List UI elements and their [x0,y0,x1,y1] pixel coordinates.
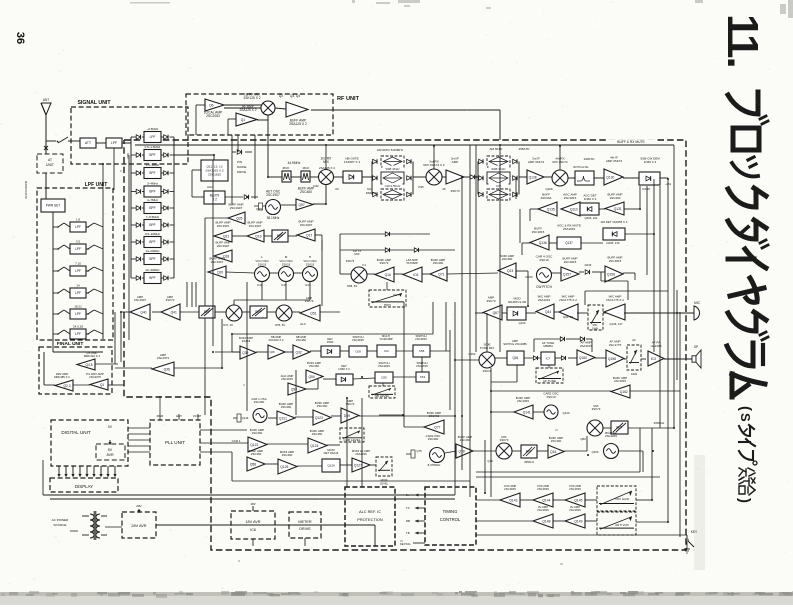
svg-text:GAIN: GAIN [631,372,637,376]
svg-text:LEVEL: LEVEL [380,482,389,486]
svg-text:BPF: BPF [204,310,210,314]
svg-text:2SA125 X 2: 2SA125 X 2 [289,122,307,126]
svg-text:Q1: Q1 [241,118,246,122]
svg-text:Q124: Q124 [310,444,318,448]
svg-text:Q1: Q1 [100,383,105,387]
svg-text:2SC460: 2SC460 [610,196,621,200]
svg-text:2SC460: 2SC460 [551,439,562,443]
svg-text:66: 66 [442,187,446,191]
svg-text:Q15: Q15 [550,450,556,454]
svg-text:14~20MHz: 14~20MHz [145,249,160,253]
svg-text:2SC1907: 2SC1907 [134,298,146,302]
svg-text:3SK73: 3SK73 [592,407,601,411]
svg-text:2SC460: 2SC460 [251,452,262,456]
svg-text:MCF: MCF [303,166,310,170]
svg-text:MIX: MIX [323,160,330,164]
svg-text:DRIVE: DRIVE [299,527,311,531]
svg-text:Q144: Q144 [542,498,550,502]
svg-text:BUFF & RX MUTE: BUFF & RX MUTE [617,140,645,144]
svg-text:NB LEVEL: NB LEVEL [375,394,390,398]
svg-text:SWITCH 2SC2086: SWITCH 2SC2086 [503,342,527,346]
svg-text:1N60: 1N60 [327,340,334,344]
svg-text:TC4011BP: TC4011BP [379,337,393,341]
svg-text:2SC460: 2SC460 [252,431,263,435]
svg-text:Q135: Q135 [547,207,555,211]
svg-text:KEY: KEY [691,530,698,534]
svg-text:Q41: Q41 [171,310,177,314]
svg-text:Q119: Q119 [242,416,249,420]
svg-text:Q145: Q145 [574,498,582,502]
svg-text:0.5~1.5MHz: 0.5~1.5MHz [145,145,161,149]
svg-text:BPF: BPF [616,426,622,430]
svg-text:2SC1907: 2SC1907 [266,193,280,197]
svg-text:MRF485 X 2: MRF485 X 2 [54,375,70,379]
svg-text:2SC1775 X 2: 2SC1775 X 2 [606,298,624,302]
svg-text:2SC1907: 2SC1907 [230,206,243,210]
svg-text:C08: C08 [355,350,361,354]
svg-text:ALC REF. IC: ALC REF. IC [359,509,381,514]
svg-text:Q149: Q149 [574,519,582,523]
svg-text:Q150: Q150 [592,450,599,454]
svg-text:TA7060P: TA7060P [406,261,418,265]
svg-text:8.5~16MHz: 8.5~16MHz [145,232,160,236]
svg-text:AMP 3SK73: AMP 3SK73 [606,159,623,163]
svg-text:2SC460: 2SC460 [282,453,293,457]
svg-text:BPF: BPF [526,450,532,454]
svg-text:2SC460: 2SC460 [281,405,292,409]
svg-text:2SC1815: 2SC1815 [378,364,390,368]
svg-text:1N60 X 2: 1N60 X 2 [338,367,350,371]
svg-text:Q136: Q136 [539,241,547,245]
svg-text:1.5~3MHz: 1.5~3MHz [146,163,160,167]
svg-text:TIMING: TIMING [443,509,458,514]
svg-text:SOURCE: SOURCE [53,523,66,527]
svg-text:Q81: Q81 [512,356,518,360]
svg-text:Q143: Q143 [509,498,517,502]
svg-text:BPF: BPF [255,310,261,314]
svg-text:LPF: LPF [75,312,81,316]
svg-text:DIGITAL UNIT: DIGITAL UNIT [61,430,91,435]
svg-text:3SK73: 3SK73 [450,189,460,193]
svg-text:MKR: MKR [157,414,165,418]
svg-text:2SC1815: 2SC1815 [614,379,626,383]
svg-text:LPF: LPF [111,141,117,145]
svg-text:Q131: Q131 [614,207,622,211]
svg-text:CW 0.5KHz: CW 0.5KHz [385,184,401,188]
svg-text:Q79: Q79 [487,459,493,463]
svg-text:TB: TB [406,531,410,535]
svg-text:LPF UNIT: LPF UNIT [85,182,108,188]
svg-text:Q148: Q148 [542,519,550,523]
svg-text:2SA1015: 2SA1015 [538,298,551,302]
svg-text:3SK73: 3SK73 [500,438,509,442]
svg-text:63: 63 [335,187,339,191]
svg-text:Q129: Q129 [545,187,552,191]
svg-text:VCOP: VCOP [193,414,202,418]
svg-text:Q62, 63: Q62, 63 [563,315,573,319]
svg-text:Q51: Q51 [310,311,316,315]
svg-text:CAR 1: CAR 1 [232,439,241,443]
svg-text:Q130: Q130 [606,175,614,179]
svg-text:2SC1815: 2SC1815 [415,337,427,341]
svg-text:2SC460: 2SC460 [428,437,439,441]
svg-text:1.8: 1.8 [76,218,81,222]
svg-text:Q26: Q26 [236,216,242,220]
svg-text:BPF: BPF [149,171,155,175]
svg-text:18V AVR: 18V AVR [245,520,260,524]
svg-text:2SA125 X 2: 2SA125 X 2 [239,108,256,112]
svg-text:2SK19: 2SK19 [546,395,555,399]
svg-text:Q127: Q127 [354,463,362,467]
svg-text:2SC1775: 2SC1775 [609,343,622,347]
svg-text:IC6: IC6 [413,273,418,277]
svg-text:2SC460: 2SC460 [317,404,328,408]
svg-text:2SA19: 2SA19 [242,339,251,343]
svg-text:Q71: Q71 [438,272,444,276]
svg-text:BPF: BPF [149,153,155,157]
svg-text:MIX: MIX [354,252,359,256]
svg-text:PIN: PIN [237,160,242,164]
svg-text:MIC: MIC [593,323,598,327]
svg-text:2SK19: 2SK19 [483,369,492,373]
svg-text:2SC460: 2SC460 [300,190,312,194]
svg-text:2SC1815: 2SC1815 [537,487,549,491]
svg-text:2SC460: 2SC460 [309,364,320,368]
svg-text:D205, 215: D205, 215 [607,241,620,245]
svg-text:Q80: Q80 [580,437,586,441]
svg-text:2SC1973: 2SC1973 [157,356,169,360]
svg-text:LPF: LPF [75,291,81,295]
svg-text:2SA1015: 2SA1015 [563,227,576,231]
svg-text:Q20: Q20 [217,270,223,274]
svg-text:Q157: Q157 [563,272,571,276]
svg-text:3SK73: 3SK73 [486,299,495,303]
svg-text:455KHz: 455KHz [518,147,529,151]
svg-text:SIGNAL UNIT: SIGNAL UNIT [77,100,111,106]
svg-text:Q19: Q19 [255,234,261,238]
svg-text:(: ( [737,406,754,411]
svg-text:Q6: Q6 [209,103,214,107]
svg-text:2SC460 X 2: 2SC460 X 2 [268,338,284,342]
svg-text:Q3, Q4: Q3, Q4 [290,94,301,98]
svg-text:2SA1015: 2SA1015 [355,452,367,456]
svg-text:BPF: BPF [149,223,155,227]
svg-text:2SC2053: 2SC2053 [206,114,220,118]
svg-text:AF: AF [632,338,636,342]
svg-text:ND487C1-3R: ND487C1-3R [508,300,527,304]
svg-text:2SC1815: 2SC1815 [281,377,293,381]
svg-text:LPF: LPF [150,135,156,139]
svg-text:IC8: IC8 [250,528,256,532]
svg-text:METER: METER [298,520,312,524]
svg-text:S: S [738,413,753,422]
svg-text:RB: RB [406,519,410,523]
svg-text:ANT: ANT [43,98,49,102]
svg-text:8.375MHz: 8.375MHz [428,463,441,467]
svg-text:BPF: BPF [149,190,155,194]
svg-text:LPF: LPF [75,332,81,336]
svg-text:265KHz: 265KHz [654,421,665,425]
svg-text:24.5.28: 24.5.28 [73,325,83,329]
svg-text:DIODE: DIODE [237,165,247,169]
svg-text:18.21: 18.21 [74,305,82,309]
svg-text:ALC: ALC [300,322,307,326]
svg-text:D150: D150 [526,275,533,279]
svg-text:Q13: Q13 [507,269,513,273]
svg-text:2SC1815: 2SC1815 [504,487,516,491]
svg-text:DRIVE: DRIVE [237,170,246,174]
svg-text:7~8.5MHz: 7~8.5MHz [146,215,160,219]
svg-text:LPF: LPF [75,247,81,251]
svg-text:2SC1815: 2SC1815 [564,260,577,264]
svg-text:Q57: Q57 [298,203,304,207]
svg-text:LPF: LPF [75,269,81,273]
svg-text:C05: C05 [381,376,387,380]
svg-text:1S1587 X 4: 1S1587 X 4 [344,160,360,164]
svg-text:PWR SET: PWR SET [46,204,61,208]
svg-text:OUT: OUT [393,293,399,297]
svg-text:20~30MHz: 20~30MHz [145,268,160,272]
svg-text:11.: 11. [718,14,767,67]
svg-text:Q206, 221: Q206, 221 [584,216,598,220]
svg-text:Q77: Q77 [434,425,440,429]
svg-text:Q123: Q123 [315,416,323,420]
svg-text:Q28: Q28 [269,350,275,354]
svg-text:2SC2075: 2SC2075 [89,375,101,379]
svg-text:UNIT: UNIT [46,163,54,167]
svg-text:Q125: Q125 [280,465,288,469]
svg-text:2SK30A: 2SK30A [540,196,551,200]
svg-text:VOX GAIN: VOX GAIN [615,497,629,501]
svg-text:D95: D95 [418,185,424,189]
svg-text:CW PITCH: CW PITCH [536,285,552,289]
svg-text:Q162: Q162 [620,390,628,394]
svg-text:14: 14 [76,284,80,288]
svg-text:AM 6KHz 8.83MHz: AM 6KHz 8.83MHz [377,148,404,152]
svg-text:BPF: BPF [277,234,283,238]
svg-text:Q25: Q25 [256,207,262,211]
svg-text:Q128: Q128 [529,175,537,179]
svg-text:MIC: MIC [694,301,701,305]
svg-text:1N60 X 4: 1N60 X 4 [644,160,657,164]
svg-text:2SC1815: 2SC1815 [569,487,581,491]
svg-text:5V: 5V [108,448,113,452]
svg-text:2SC460: 2SC460 [502,257,513,261]
svg-text:Q137: Q137 [565,241,573,245]
svg-text:D55, 56: D55, 56 [275,323,285,327]
svg-text:Q140: Q140 [519,321,526,325]
svg-text:BPF: BPF [149,206,155,210]
svg-text:CAR LEVEL: CAR LEVEL [343,438,360,442]
svg-text:KEYING: KEYING [400,542,411,546]
svg-text:AC POWER: AC POWER [52,518,70,522]
svg-text:44.9MHz: 44.9MHz [288,161,301,165]
svg-text:2SC1815: 2SC1815 [208,172,221,176]
svg-text:2SA1015: 2SA1015 [580,344,593,348]
svg-text:MCF: MCF [283,166,290,170]
svg-text:3~4MHz: 3~4MHz [147,182,158,186]
svg-text:3.5: 3.5 [76,240,81,244]
svg-text:Q44: Q44 [545,310,551,314]
svg-text:Q39: Q39 [242,351,248,355]
svg-text:PLL UNIT: PLL UNIT [165,440,185,445]
svg-text:BPF: BPF [149,276,155,280]
svg-text:Q17: Q17 [306,233,312,237]
svg-text:SSB 3KHz: SSB 3KHz [385,167,400,171]
svg-text:C51: C51 [420,375,426,379]
svg-text:Q32: Q32 [295,350,301,354]
svg-text:C58: C58 [419,349,425,353]
svg-text:IC158: IC158 [642,187,650,191]
svg-text:LPF: LPF [75,225,81,229]
svg-text:GAIN: GAIN [592,327,598,331]
svg-text:2SC1907: 2SC1907 [217,244,230,248]
svg-text:2SC460: 2SC460 [296,338,307,342]
svg-text:TX: TX [406,506,410,510]
svg-text:2SC1907: 2SC1907 [217,224,230,228]
svg-text:PROTECTION: PROTECTION [357,517,383,522]
svg-text:2SK125 X 2: 2SK125 X 2 [243,96,260,100]
svg-text:2SC1775 X 2: 2SC1775 X 2 [559,298,577,302]
svg-text:ATT: ATT [85,141,91,145]
svg-text:1N60 X 2: 1N60 X 2 [584,197,597,201]
svg-text:3SK73: 3SK73 [380,261,389,265]
svg-text:Q67: Q67 [493,311,499,315]
svg-text:Q141: Q141 [523,410,531,414]
svg-text:28V: 28V [136,504,142,508]
svg-text:NOTCH FIL: NOTCH FIL [573,165,589,169]
svg-text:Q156: Q156 [607,272,615,276]
svg-text:DET 2SA16: DET 2SA16 [324,451,339,455]
svg-text:MRF422 X 2: MRF422 X 2 [84,354,101,358]
svg-text:Q2,3: Q2,3 [63,384,70,388]
svg-text:2SC1815: 2SC1815 [564,196,577,200]
svg-text:Q40: Q40 [140,310,146,314]
svg-text:2SC460: 2SC460 [433,261,444,265]
svg-text:PRO: PRO [384,303,391,307]
svg-text:BPF: BPF [149,240,155,244]
svg-text:AM DET 1S1555 X 2: AM DET 1S1555 X 2 [601,220,628,224]
svg-text:RF UNIT: RF UNIT [337,96,360,102]
svg-text:AT: AT [48,158,52,162]
svg-text:Q21: Q21 [223,234,229,238]
svg-text:BPF: BPF [149,257,155,261]
svg-text:7.10: 7.10 [75,262,81,266]
svg-text:Q121: Q121 [279,416,287,420]
svg-text:18V: 18V [250,502,256,506]
svg-text:D243: D243 [585,263,592,267]
svg-text:): ) [736,498,753,503]
svg-text:2SC460: 2SC460 [460,438,471,442]
svg-text:Q50: Q50 [308,375,314,379]
svg-text:4~7MHz: 4~7MHz [147,198,158,202]
svg-text:AM 6KHz: AM 6KHz [489,147,503,151]
svg-text:100KHz: 100KHz [583,157,594,161]
svg-text:Q58: Q58 [250,462,256,466]
svg-text:2SC1815: 2SC1815 [532,230,545,234]
svg-text:28V AVR: 28V AVR [131,524,146,528]
svg-text:Q126: Q126 [327,464,335,468]
svg-text:Q158: Q158 [608,357,616,361]
svg-text:AF TUNE: AF TUNE [543,379,556,383]
svg-text:IC7: IC7 [546,357,551,361]
svg-text:Q36: Q36 [164,367,170,371]
svg-text:AMP: AMP [452,160,459,164]
svg-text:X 2: X 2 [362,263,367,267]
svg-text:Q4,5: Q4,5 [85,363,92,367]
svg-text:38.1MHz: 38.1MHz [267,216,280,220]
svg-text:DISPLAY: DISPLAY [75,484,93,489]
svg-text:2SC460: 2SC460 [312,432,323,436]
svg-text:D42: D42 [313,184,319,188]
svg-text:2SC1815: 2SC1815 [609,259,622,263]
svg-text:IC2: IC2 [384,349,389,353]
svg-text:Q140: Q140 [563,411,570,415]
svg-text:Q16: Q16 [385,273,391,277]
svg-text:3SK73: 3SK73 [346,259,355,263]
svg-text:RADIO DATA: RADIO DATA [24,181,28,199]
svg-text:Q122: Q122 [250,443,258,447]
svg-text:2SC1815: 2SC1815 [517,399,529,403]
svg-text:Q75: Q75 [416,449,422,453]
svg-text:ANTI VOX: ANTI VOX [615,523,629,527]
svg-text:2SK19: 2SK19 [539,258,549,262]
svg-text:D68, 69: D68, 69 [347,284,357,288]
svg-text:FINAL UNIT: FINAL UNIT [57,341,84,347]
svg-text:D47, 49: D47, 49 [223,323,233,327]
svg-text:2SC1815: 2SC1815 [537,508,549,512]
svg-text:36: 36 [14,32,26,44]
svg-text:455KHz: 455KHz [524,460,535,464]
svg-text:2SC1907: 2SC1907 [300,223,313,227]
svg-text:2SC1815: 2SC1815 [352,338,364,342]
svg-text:Q160: Q160 [579,356,587,360]
svg-text:Q110: Q110 [570,207,578,211]
svg-text:3SK73: 3SK73 [166,298,175,302]
svg-text:Q146, 147: Q146, 147 [609,322,623,326]
svg-text:SSB 3KHz: SSB 3KHz [491,167,506,171]
svg-text:AMP 3SK73: AMP 3SK73 [528,160,545,164]
svg-text:Q2: Q2 [279,94,283,98]
svg-text:2SC1907: 2SC1907 [249,224,262,228]
svg-text:2SC460: 2SC460 [254,400,265,404]
svg-text:AVR: AVR [106,453,114,457]
svg-text:2SC1815: 2SC1815 [569,508,581,512]
svg-text:~0.5MHz: ~0.5MHz [147,127,159,131]
svg-text:SP: SP [694,345,698,349]
svg-text:CONTROL: CONTROL [440,517,461,522]
svg-text:2SC1815: 2SC1815 [605,434,617,438]
